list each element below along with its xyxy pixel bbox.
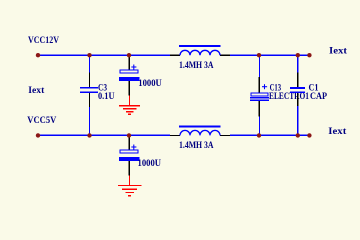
- junction: top rail / C1: [296, 53, 300, 57]
- negative plate line 1 of C13: [250, 97, 269, 99]
- plus sign of C13: [262, 86, 267, 88]
- pin 1 of C1: [297, 73, 299, 88]
- wire C3 branch lower: [89, 107, 91, 135]
- negative plate (filled): [119, 77, 139, 81]
- ground symbol (top electrolytic): [119, 96, 140, 115]
- positive plate (hollow): [120, 70, 138, 73]
- svg-text:VCC12V: VCC12V: [28, 35, 59, 45]
- electrolytic capacitor 1000U (top, on VCC12V): [119, 55, 162, 95]
- node: top rail right end: [307, 53, 311, 57]
- capacitor C3 0.1U: [80, 73, 115, 108]
- pin 2 of C13: [258, 101, 260, 117]
- negative plate line 2 of C13: [250, 99, 269, 101]
- junction: top rail / C3: [87, 53, 91, 57]
- junction: top rail / electrolytic: [127, 53, 131, 57]
- svg-text:0.1U: 0.1U: [98, 91, 115, 101]
- winding arcs of L2: [180, 130, 220, 135]
- pin 2 of L1: [220, 54, 230, 56]
- node: bottom rail right end: [307, 133, 311, 137]
- junction: bottom rail / C3: [87, 133, 91, 137]
- pin 1 of C3: [89, 73, 91, 88]
- plus sign: [131, 146, 136, 148]
- core bar of L1: [179, 45, 221, 47]
- pin 2 of C1: [297, 93, 299, 106]
- node: top rail left end: [36, 53, 40, 57]
- bottom plate of C3: [80, 91, 98, 93]
- svg-text:Iext: Iext: [328, 126, 346, 136]
- inductor L2 1.4MH3A (bottom): [170, 126, 230, 150]
- junction: bottom rail / electrolytic: [127, 133, 131, 137]
- wire C1 branch lower: [297, 106, 299, 135]
- pin 1 of C13: [258, 77, 260, 92]
- pin 1 of L1: [170, 54, 180, 56]
- junction: bottom rail / C1: [296, 133, 300, 137]
- capacitor C1 CAP: [290, 73, 327, 107]
- svg-text:1.4MH 3A: 1.4MH 3A: [179, 60, 214, 70]
- svg-text:Iext: Iext: [329, 45, 347, 55]
- inductor L1 1.4MH3A (top): [170, 45, 230, 70]
- pin 1 (top): [128, 55, 130, 69]
- svg-text:Iext: Iext: [28, 85, 44, 95]
- positive plate (hollow) of C13: [251, 93, 268, 96]
- pin 1 of L2: [170, 134, 180, 136]
- svg-text:CAP: CAP: [310, 91, 327, 101]
- positive plate (hollow): [120, 150, 138, 153]
- wire top rail right segment: [230, 54, 310, 56]
- top plate of C3: [80, 87, 98, 89]
- ground symbol (bottom electrolytic): [118, 176, 142, 196]
- pin 2 (bottom): [128, 161, 130, 176]
- wire bottom rail right segment: [230, 134, 310, 136]
- svg-text:1000U: 1000U: [138, 78, 162, 88]
- junction: bottom rail / C13: [257, 133, 261, 137]
- svg-text:1.4MH 3A: 1.4MH 3A: [179, 140, 214, 150]
- wire C13 branch lower: [258, 117, 260, 136]
- negative plate (filled): [119, 157, 139, 161]
- node: bottom rail left end: [36, 133, 40, 137]
- svg-text:1000U: 1000U: [138, 158, 162, 168]
- electrolytic capacitor 1000U (bottom, on VCC5V): [119, 135, 161, 175]
- wire top rail VCC12V left segment: [38, 54, 170, 56]
- plus sign: [131, 66, 136, 68]
- pin 2 of C3: [89, 93, 91, 107]
- wire C3 branch upper: [89, 55, 91, 72]
- wire C13 branch upper: [258, 55, 260, 77]
- junction: top rail / C13: [257, 53, 261, 57]
- core bar of L2: [179, 126, 221, 128]
- electrolytic capacitor C13 ELECTRO1: [250, 77, 309, 117]
- pin 2 (bottom): [128, 81, 130, 96]
- pin 2 of L2: [220, 134, 230, 136]
- pin 1 (top): [128, 135, 130, 149]
- bottom plate of C1: [290, 91, 305, 93]
- winding arcs of L1: [180, 50, 220, 55]
- wire bottom rail VCC5V left segment: [38, 134, 170, 136]
- wire C1 branch upper: [297, 55, 299, 72]
- top plate of C1: [290, 87, 305, 89]
- svg-text:VCC5V: VCC5V: [27, 115, 56, 125]
